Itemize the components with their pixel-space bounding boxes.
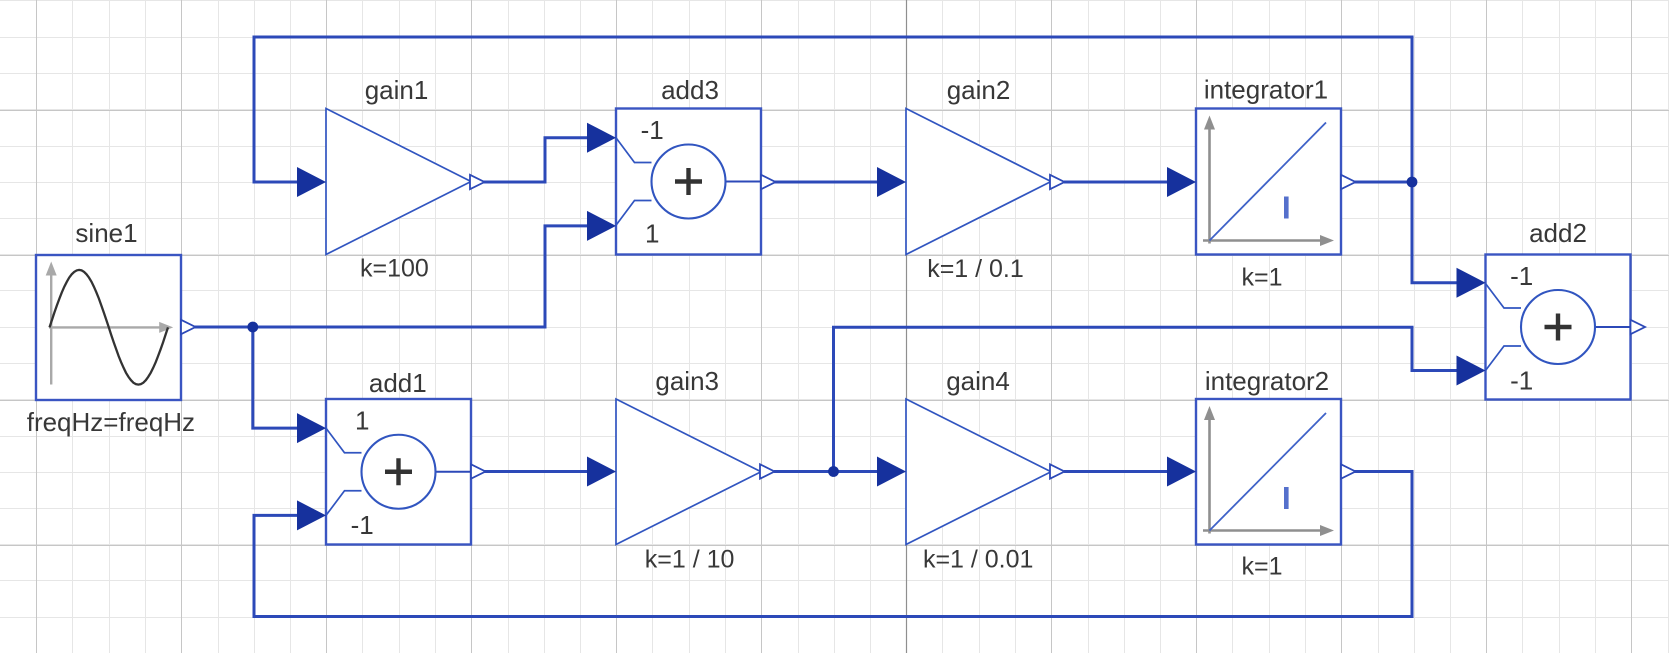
svg-text:k=1 / 0.1: k=1 / 0.1 [927, 255, 1024, 283]
svg-text:k=1 / 10: k=1 / 10 [645, 546, 735, 574]
input arrow add3 lower [587, 211, 616, 241]
svg-text:sine1: sine1 [75, 218, 137, 248]
svg-text:integrator1: integrator1 [1204, 75, 1328, 105]
input arrow gain2 [877, 167, 906, 197]
output port gain3 [760, 464, 775, 478]
wire: gain4 output to integrator2 input [1064, 470, 1169, 473]
output port gain2 [1050, 175, 1065, 189]
svg-text:k=1: k=1 [1241, 553, 1282, 581]
svg-text:-1: -1 [1510, 366, 1533, 396]
input arrow add2 lower [1457, 356, 1486, 386]
svg-text:gain4: gain4 [946, 366, 1010, 396]
junction dot gain3 output [828, 466, 839, 477]
input arrow add2 upper [1457, 268, 1486, 298]
gain block gain2 [906, 109, 1051, 255]
adder block add3 [616, 109, 761, 255]
wire: bottom feedback from integrator2 output to add1 lower input [254, 472, 1412, 617]
wire: gain3 junction up and across to add2 lower input [834, 327, 1459, 471]
grid dark major line x=906 [906, 0, 908, 653]
adder block add2 [1486, 255, 1631, 400]
source block sine1 [36, 255, 181, 400]
wire: gain1 output to add3 upper input [483, 138, 589, 182]
output port add3 [761, 175, 776, 189]
junction dot sine1 branch [247, 322, 258, 333]
output port gain1 [470, 175, 485, 189]
svg-text:-1: -1 [641, 115, 664, 145]
output port integrator2 [1341, 464, 1356, 478]
wire: add3 output to gain2 input [774, 181, 879, 184]
svg-text:k=1: k=1 [1241, 264, 1282, 292]
svg-text:add1: add1 [369, 368, 427, 398]
wire: gain2 output to integrator1 input [1064, 181, 1169, 184]
svg-text:integrator2: integrator2 [1205, 366, 1329, 396]
wire: sine1 junction down to add1 upper input [253, 327, 299, 428]
wire: junction down to add2 upper input [1412, 182, 1458, 283]
svg-text:k=1 / 0.01: k=1 / 0.01 [923, 546, 1034, 574]
output port add1 [471, 464, 486, 478]
junction dot integrator1 output [1407, 177, 1418, 188]
svg-text:freqHz=freqHz: freqHz=freqHz [27, 407, 195, 437]
svg-text:add3: add3 [661, 75, 719, 105]
output port integrator1 [1341, 175, 1356, 189]
svg-text:1: 1 [645, 219, 659, 249]
integrator block integrator1 [1196, 109, 1341, 255]
input arrow integrator1 [1167, 167, 1196, 197]
gain block gain3 [616, 399, 761, 545]
input arrow add1 upper [297, 413, 326, 443]
output port sine1 [181, 320, 196, 334]
input arrow add1 lower [297, 500, 326, 530]
adder block add1 [326, 399, 471, 545]
svg-text:gain3: gain3 [655, 366, 719, 396]
integrator block integrator2 [1196, 399, 1341, 545]
input arrow gain1 [297, 167, 326, 197]
input arrow gain4 [877, 457, 906, 487]
svg-text:k=100: k=100 [360, 255, 429, 283]
svg-text:-1: -1 [351, 510, 374, 540]
svg-text:add2: add2 [1529, 218, 1587, 248]
output port gain4 [1050, 464, 1065, 478]
wire: add1 output to gain3 input [484, 470, 589, 473]
output port add2 [1631, 320, 1646, 334]
gain block gain1 [326, 109, 471, 255]
input arrow integrator2 [1167, 457, 1196, 487]
input arrow add3 upper [587, 123, 616, 153]
wire: integrator1 output to junction [1354, 181, 1412, 184]
wire: top feedback from integrator1 output to gain1 input [254, 37, 1412, 182]
input arrow gain3 [587, 457, 616, 487]
wire: gain3 output to gain4 input [774, 470, 879, 473]
wire: sine1 output to add3 lower input [191, 226, 589, 327]
svg-text:gain2: gain2 [947, 75, 1011, 105]
gain block gain4 [906, 399, 1051, 545]
svg-text:-1: -1 [1510, 261, 1533, 291]
svg-text:1: 1 [355, 406, 369, 436]
svg-text:gain1: gain1 [365, 75, 429, 105]
